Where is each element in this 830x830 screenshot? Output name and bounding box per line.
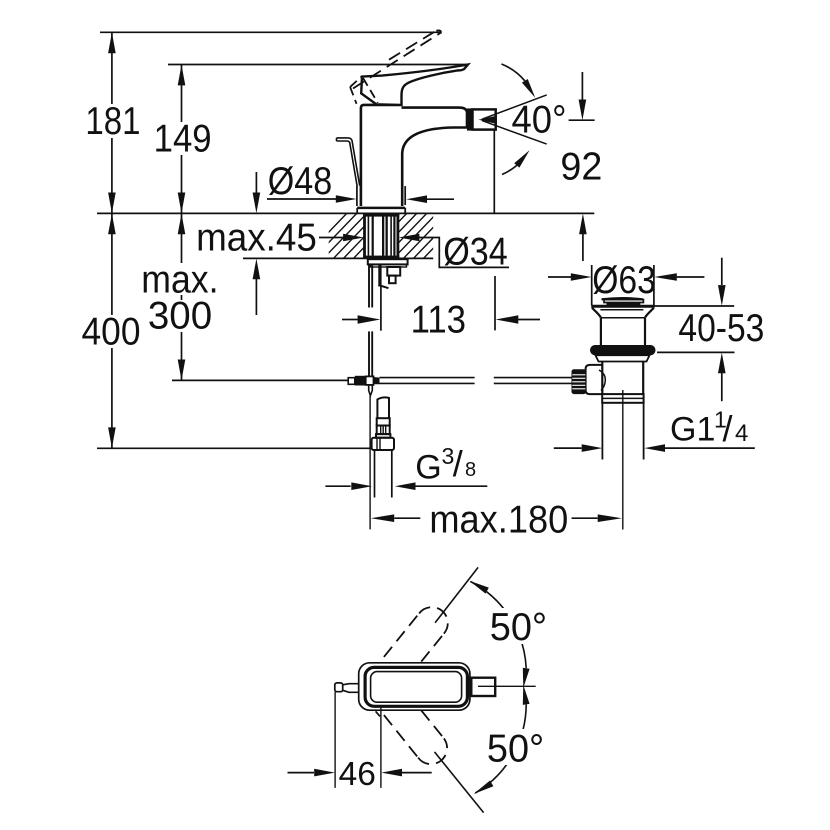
max180 dim line — [394, 517, 420, 519]
pull rod below deck (with break) — [369, 264, 372, 375]
40 degree lower radiating line — [482, 121, 547, 145]
46 dim arrows — [288, 772, 315, 774]
svg-text:Ø48: Ø48 — [268, 159, 332, 202]
svg-text:8: 8 — [465, 459, 476, 481]
92 top tick — [569, 119, 595, 121]
top view aerator box — [471, 678, 495, 696]
top view outer body outline — [359, 663, 470, 710]
50 deg lower arc — [475, 704, 526, 793]
G1 1/4 dim arrows — [554, 447, 582, 449]
horizontal pop-up linkage rod — [380, 378, 572, 384]
O48 extension line right — [404, 186, 406, 205]
50 deg lower inclined line — [435, 752, 484, 813]
dimension line 181/400 vertical — [111, 32, 113, 448]
side port — [586, 365, 603, 394]
nut block C — [389, 276, 396, 284]
40-53 top tick — [653, 305, 734, 307]
faucet body side view — [357, 105, 467, 213]
deck bottom line — [243, 257, 433, 259]
rod foot diagonal — [379, 285, 389, 288]
max45 vertical arrows — [255, 172, 257, 193]
50 deg upper arc — [471, 582, 527, 669]
aerator box — [473, 109, 496, 129]
svg-text:50°: 50° — [487, 727, 544, 770]
handle dashed rotated position — [350, 30, 441, 103]
reference line top (181) — [100, 31, 441, 33]
top view handle thick outline — [365, 667, 467, 706]
hatching left slab — [300, 210, 470, 262]
hatching right slab — [300, 210, 470, 262]
40 degree upper radiating line — [482, 95, 547, 119]
handle (solid) — [361, 65, 468, 105]
O48 right arrow — [427, 198, 454, 200]
flange sides — [592, 308, 654, 318]
aerator nub — [467, 108, 473, 130]
40-53 bottom tick — [657, 351, 735, 353]
svg-text:/: / — [453, 443, 463, 484]
thin extension line from rod tip down — [369, 396, 371, 530]
top view bottom notch — [376, 711, 380, 716]
dashed blade upper edge — [389, 31, 436, 60]
svg-text:max.180: max.180 — [429, 497, 568, 540]
washer below deck — [368, 259, 408, 264]
T-connector pivot — [348, 378, 355, 385]
nut step line — [371, 264, 407, 267]
40 degree upper swing arc — [502, 64, 525, 81]
plug black ring — [607, 303, 641, 306]
supply hose assembly — [372, 397, 394, 497]
svg-text:50°: 50° — [490, 606, 547, 649]
drain neck — [600, 318, 602, 346]
extension line aerator to deck (92) — [493, 131, 495, 214]
flange inner line — [600, 309, 643, 311]
faucet shank through deck — [363, 213, 399, 259]
flange — [376, 434, 390, 438]
rod stub below T — [369, 386, 373, 396]
top view handle inner line — [371, 672, 462, 703]
top view left pin — [335, 683, 343, 692]
50 deg upper inclined line — [435, 567, 478, 622]
valve body inner curve — [599, 370, 605, 391]
svg-text:40-53: 40-53 — [678, 306, 764, 350]
40-53 down arrow — [721, 258, 723, 285]
top view centerline — [478, 685, 536, 687]
drain centerline — [622, 390, 624, 530]
G3/8 dim arrows — [325, 485, 350, 487]
92 down arrow — [581, 72, 583, 100]
dim arrows 181 — [108, 33, 116, 54]
knurl — [377, 426, 390, 435]
nut block B — [387, 267, 400, 276]
svg-text:Ø34: Ø34 — [443, 229, 507, 272]
40-53 up arrow — [721, 373, 723, 401]
threaded rod below — [378, 264, 381, 286]
svg-text:400: 400 — [82, 310, 141, 353]
tailpipe — [601, 403, 603, 460]
flange top — [591, 305, 655, 308]
40 degree vertex arrow — [479, 116, 498, 124]
O63 extension lines — [591, 265, 593, 305]
O48 extension line left — [356, 186, 358, 206]
92 up arrow below deck — [582, 234, 584, 261]
dashed rotated handle lower — [384, 695, 447, 764]
dashed blade lower edge — [353, 33, 441, 89]
max300 bottom reference line (rod level) — [172, 379, 348, 381]
svg-text:113: 113 — [411, 298, 466, 341]
40 degree lower swing arc — [502, 165, 517, 174]
dim arrows max300 — [178, 214, 186, 235]
reference line handle tip (149) — [168, 64, 468, 66]
svg-text:G: G — [415, 449, 441, 487]
46 extension lines — [334, 692, 336, 788]
base plinth — [357, 207, 405, 210]
plug plate — [604, 300, 643, 303]
knurled knob — [572, 369, 587, 394]
collar below O-ring — [595, 355, 649, 361]
spout underside curve — [402, 128, 467, 207]
body left edge — [361, 105, 402, 206]
dashed rotated handle upper — [384, 607, 448, 677]
coupling — [602, 394, 643, 403]
top view aerator nub — [467, 678, 471, 696]
O34 hole arrows — [318, 237, 343, 239]
reference line hose end (400) — [97, 447, 372, 449]
svg-text:max.45: max.45 — [196, 216, 317, 259]
pipe — [374, 450, 376, 498]
deck top line — [97, 212, 594, 214]
dashed tip cap — [436, 30, 441, 33]
113 dim arrows — [342, 319, 358, 321]
dim arrows 149 — [178, 65, 186, 86]
svg-text:300: 300 — [148, 294, 212, 337]
svg-text:/: / — [723, 408, 733, 449]
hose top beveled — [377, 397, 389, 418]
valve body — [601, 362, 603, 395]
pop-up rod left of body — [337, 138, 360, 187]
O34 leader to label — [419, 238, 509, 268]
dimension line 149/max300 vertical — [181, 65, 183, 380]
svg-text:4: 4 — [735, 420, 748, 447]
O63 dim arrows — [548, 276, 571, 278]
svg-text:92: 92 — [560, 146, 602, 188]
O-ring — [590, 345, 656, 355]
svg-text:40°: 40° — [511, 98, 566, 141]
svg-text:46: 46 — [339, 756, 376, 793]
drain plug dome — [602, 298, 644, 299]
dashed base internal diagonal — [363, 78, 378, 103]
dim arrows 400 — [108, 214, 116, 235]
dashed base left edges — [350, 76, 362, 104]
svg-text:149: 149 — [154, 117, 212, 160]
collar — [377, 418, 390, 425]
svg-text:181: 181 — [85, 100, 140, 143]
svg-text:Ø63: Ø63 — [592, 258, 656, 302]
113 right extension line — [494, 276, 496, 330]
113 left extension line — [380, 287, 382, 331]
O48 leader underline and arrow — [267, 198, 337, 200]
spout top and right end — [402, 108, 468, 128]
svg-text:G1: G1 — [670, 411, 715, 449]
nut — [372, 438, 394, 450]
